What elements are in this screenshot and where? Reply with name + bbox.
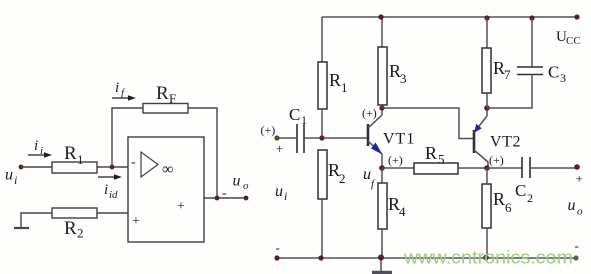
wire input to R1 (21, 166, 52, 168)
wire R4 to bottom rail (381, 229, 383, 258)
svg-text:u: u (568, 197, 576, 214)
node rail C3 (529, 15, 534, 20)
svg-text:∞: ∞ (162, 161, 173, 178)
svg-text:-: - (276, 240, 280, 255)
node VT2 emitter (484, 105, 490, 111)
node R2 bottom (318, 255, 323, 260)
svg-text:2: 2 (339, 171, 346, 186)
node R4 ground (378, 255, 384, 261)
resistor R1 (right) (318, 62, 327, 109)
svg-text:R: R (425, 143, 437, 163)
label C3 (548, 63, 566, 86)
terminal input (right circuit) (274, 135, 279, 140)
wire node to VT1 base (322, 137, 367, 139)
node R6 bottom (483, 255, 489, 261)
svg-text:www.cntronics.com: www.cntronics.com (403, 248, 573, 268)
svg-text:R: R (329, 70, 341, 90)
svg-text:i: i (34, 138, 38, 154)
svg-text:1: 1 (77, 152, 84, 167)
label i_i with arrow (28, 138, 52, 158)
node VT2 collector output (484, 165, 490, 171)
transistor VT1 (368, 108, 383, 168)
resistor R5 (414, 163, 458, 174)
wire R7 to emitter node (486, 93, 488, 108)
svg-text:C: C (515, 181, 526, 200)
svg-text:(+): (+) (362, 106, 377, 120)
svg-text:-: - (131, 155, 136, 170)
wire rail down to R1 (321, 17, 323, 62)
label u_f (363, 166, 376, 190)
svg-text:+: + (132, 214, 140, 229)
wire rail to C3 (531, 18, 533, 67)
label R5 (425, 143, 445, 167)
svg-text:R: R (156, 83, 169, 104)
svg-text:id: id (109, 189, 118, 201)
svg-text:5: 5 (438, 152, 445, 167)
wire R3 to collector node (381, 105, 383, 108)
svg-text:C: C (548, 63, 559, 82)
svg-text:o: o (577, 206, 583, 218)
svg-text:F: F (169, 91, 176, 106)
terminal input left (19, 165, 24, 170)
svg-text:3: 3 (400, 71, 407, 86)
svg-text:u: u (275, 183, 283, 200)
svg-text:+: + (576, 171, 583, 186)
wire C3 to emitter node (487, 75, 532, 109)
resistor R6 (482, 184, 491, 228)
wire C1 to node (304, 137, 322, 139)
svg-text:i: i (14, 173, 17, 187)
label R2 (right) (328, 160, 346, 186)
wire feedback up from node (112, 108, 143, 167)
terminal output (right) (574, 164, 580, 170)
svg-text:2: 2 (77, 226, 84, 241)
svg-text:(+): (+) (261, 123, 276, 137)
wire u_f to R5 (382, 167, 414, 169)
ground (right) (372, 258, 392, 273)
label C1 (289, 105, 307, 127)
capacitor C1 (297, 124, 304, 153)
svg-text:VT1: VT1 (383, 131, 415, 148)
label u_i (right) (275, 183, 287, 203)
node inverting input (110, 165, 115, 170)
wire R2 to ground (21, 213, 52, 227)
terminal Ucc (574, 14, 579, 19)
svg-text:6: 6 (505, 200, 512, 215)
terminal input minus (274, 255, 279, 260)
label RF (156, 83, 176, 106)
wire VT1 collector to VT2 base (382, 108, 473, 139)
svg-text:-: - (222, 186, 227, 201)
wire Ucc top rail (322, 16, 577, 18)
svg-text:i: i (115, 80, 119, 96)
resistor R2 (left) (52, 208, 97, 218)
label R2 (left) (64, 218, 84, 241)
svg-text:R: R (493, 189, 505, 209)
resistor R2 (right) (318, 150, 327, 199)
svg-text:u: u (5, 167, 13, 184)
wire R5 to VT2 collector node (458, 167, 487, 169)
node rail R7 (484, 15, 489, 20)
op-amp U1 box (128, 137, 204, 242)
capacitor C3 (517, 67, 543, 75)
label u_o (right) (568, 197, 584, 218)
wire C2 to output terminal (530, 167, 577, 169)
wire input to C1 (277, 137, 297, 139)
svg-text:u: u (363, 166, 371, 183)
svg-text:i: i (284, 189, 287, 203)
label i_f with arrow (112, 80, 136, 101)
label C2 (515, 181, 533, 205)
node base VT1 (319, 135, 324, 140)
svg-text:(+): (+) (489, 153, 504, 167)
svg-text:C: C (289, 105, 300, 124)
node rail R3 (378, 14, 383, 19)
terminal output left circuit (244, 196, 249, 201)
wire bottom rail (277, 257, 577, 259)
wire R2 to bottom rail (321, 199, 323, 258)
label i_id with arrow (98, 174, 122, 201)
label R6 (493, 189, 512, 215)
wire RF to output node (188, 108, 217, 198)
label R7 (493, 58, 511, 82)
resistor R1 (left) (52, 162, 97, 173)
svg-text:4: 4 (399, 204, 406, 219)
svg-text:R: R (64, 218, 77, 239)
wire R1 to base node (321, 109, 323, 138)
svg-text:7: 7 (504, 67, 511, 82)
node u_f (379, 165, 385, 171)
wire R1 to op-amp (97, 166, 128, 168)
wire output (204, 197, 246, 199)
terminal output minus (573, 255, 578, 260)
label u_o (left) (233, 173, 250, 193)
resistor R7 (482, 48, 491, 93)
svg-text:2: 2 (527, 191, 533, 205)
svg-text:o: o (243, 180, 249, 192)
capacitor C2 (522, 157, 530, 178)
svg-text:(+): (+) (388, 153, 403, 167)
label R4 (388, 194, 406, 219)
svg-text:1: 1 (301, 113, 307, 127)
resistor R3 (378, 47, 387, 105)
transistor VT2 (474, 108, 488, 167)
svg-text:CC: CC (566, 35, 581, 47)
label U_CC (556, 29, 581, 47)
svg-text:R: R (64, 143, 77, 164)
resistor RF (143, 104, 188, 114)
ground (left) (14, 227, 29, 229)
op-amp triangle (141, 152, 158, 177)
svg-text:+: + (276, 141, 283, 156)
wire rail to R3 (381, 17, 383, 47)
wire R6 to bottom rail (486, 228, 488, 258)
svg-text:i: i (104, 182, 108, 198)
wire node to R6 (486, 168, 488, 184)
node feedback/output (215, 196, 220, 201)
svg-text:VT2: VT2 (490, 134, 521, 151)
label R3 (389, 61, 407, 86)
svg-text:1: 1 (341, 80, 348, 95)
svg-text:u: u (233, 173, 241, 190)
wire u_f node to R4 (381, 168, 383, 183)
label R1 (left) (64, 143, 84, 167)
svg-text:-: - (575, 238, 579, 253)
svg-text:+: + (177, 199, 185, 214)
node VT1 collector (379, 105, 384, 110)
resistor R4 (378, 183, 387, 229)
label u_i (left input) (5, 167, 17, 188)
svg-text:3: 3 (560, 71, 566, 85)
wire rail to R7 (486, 18, 488, 48)
label R1 (right) (329, 70, 348, 95)
wire noninverting input (97, 212, 128, 214)
wire node to C2 (487, 167, 522, 169)
